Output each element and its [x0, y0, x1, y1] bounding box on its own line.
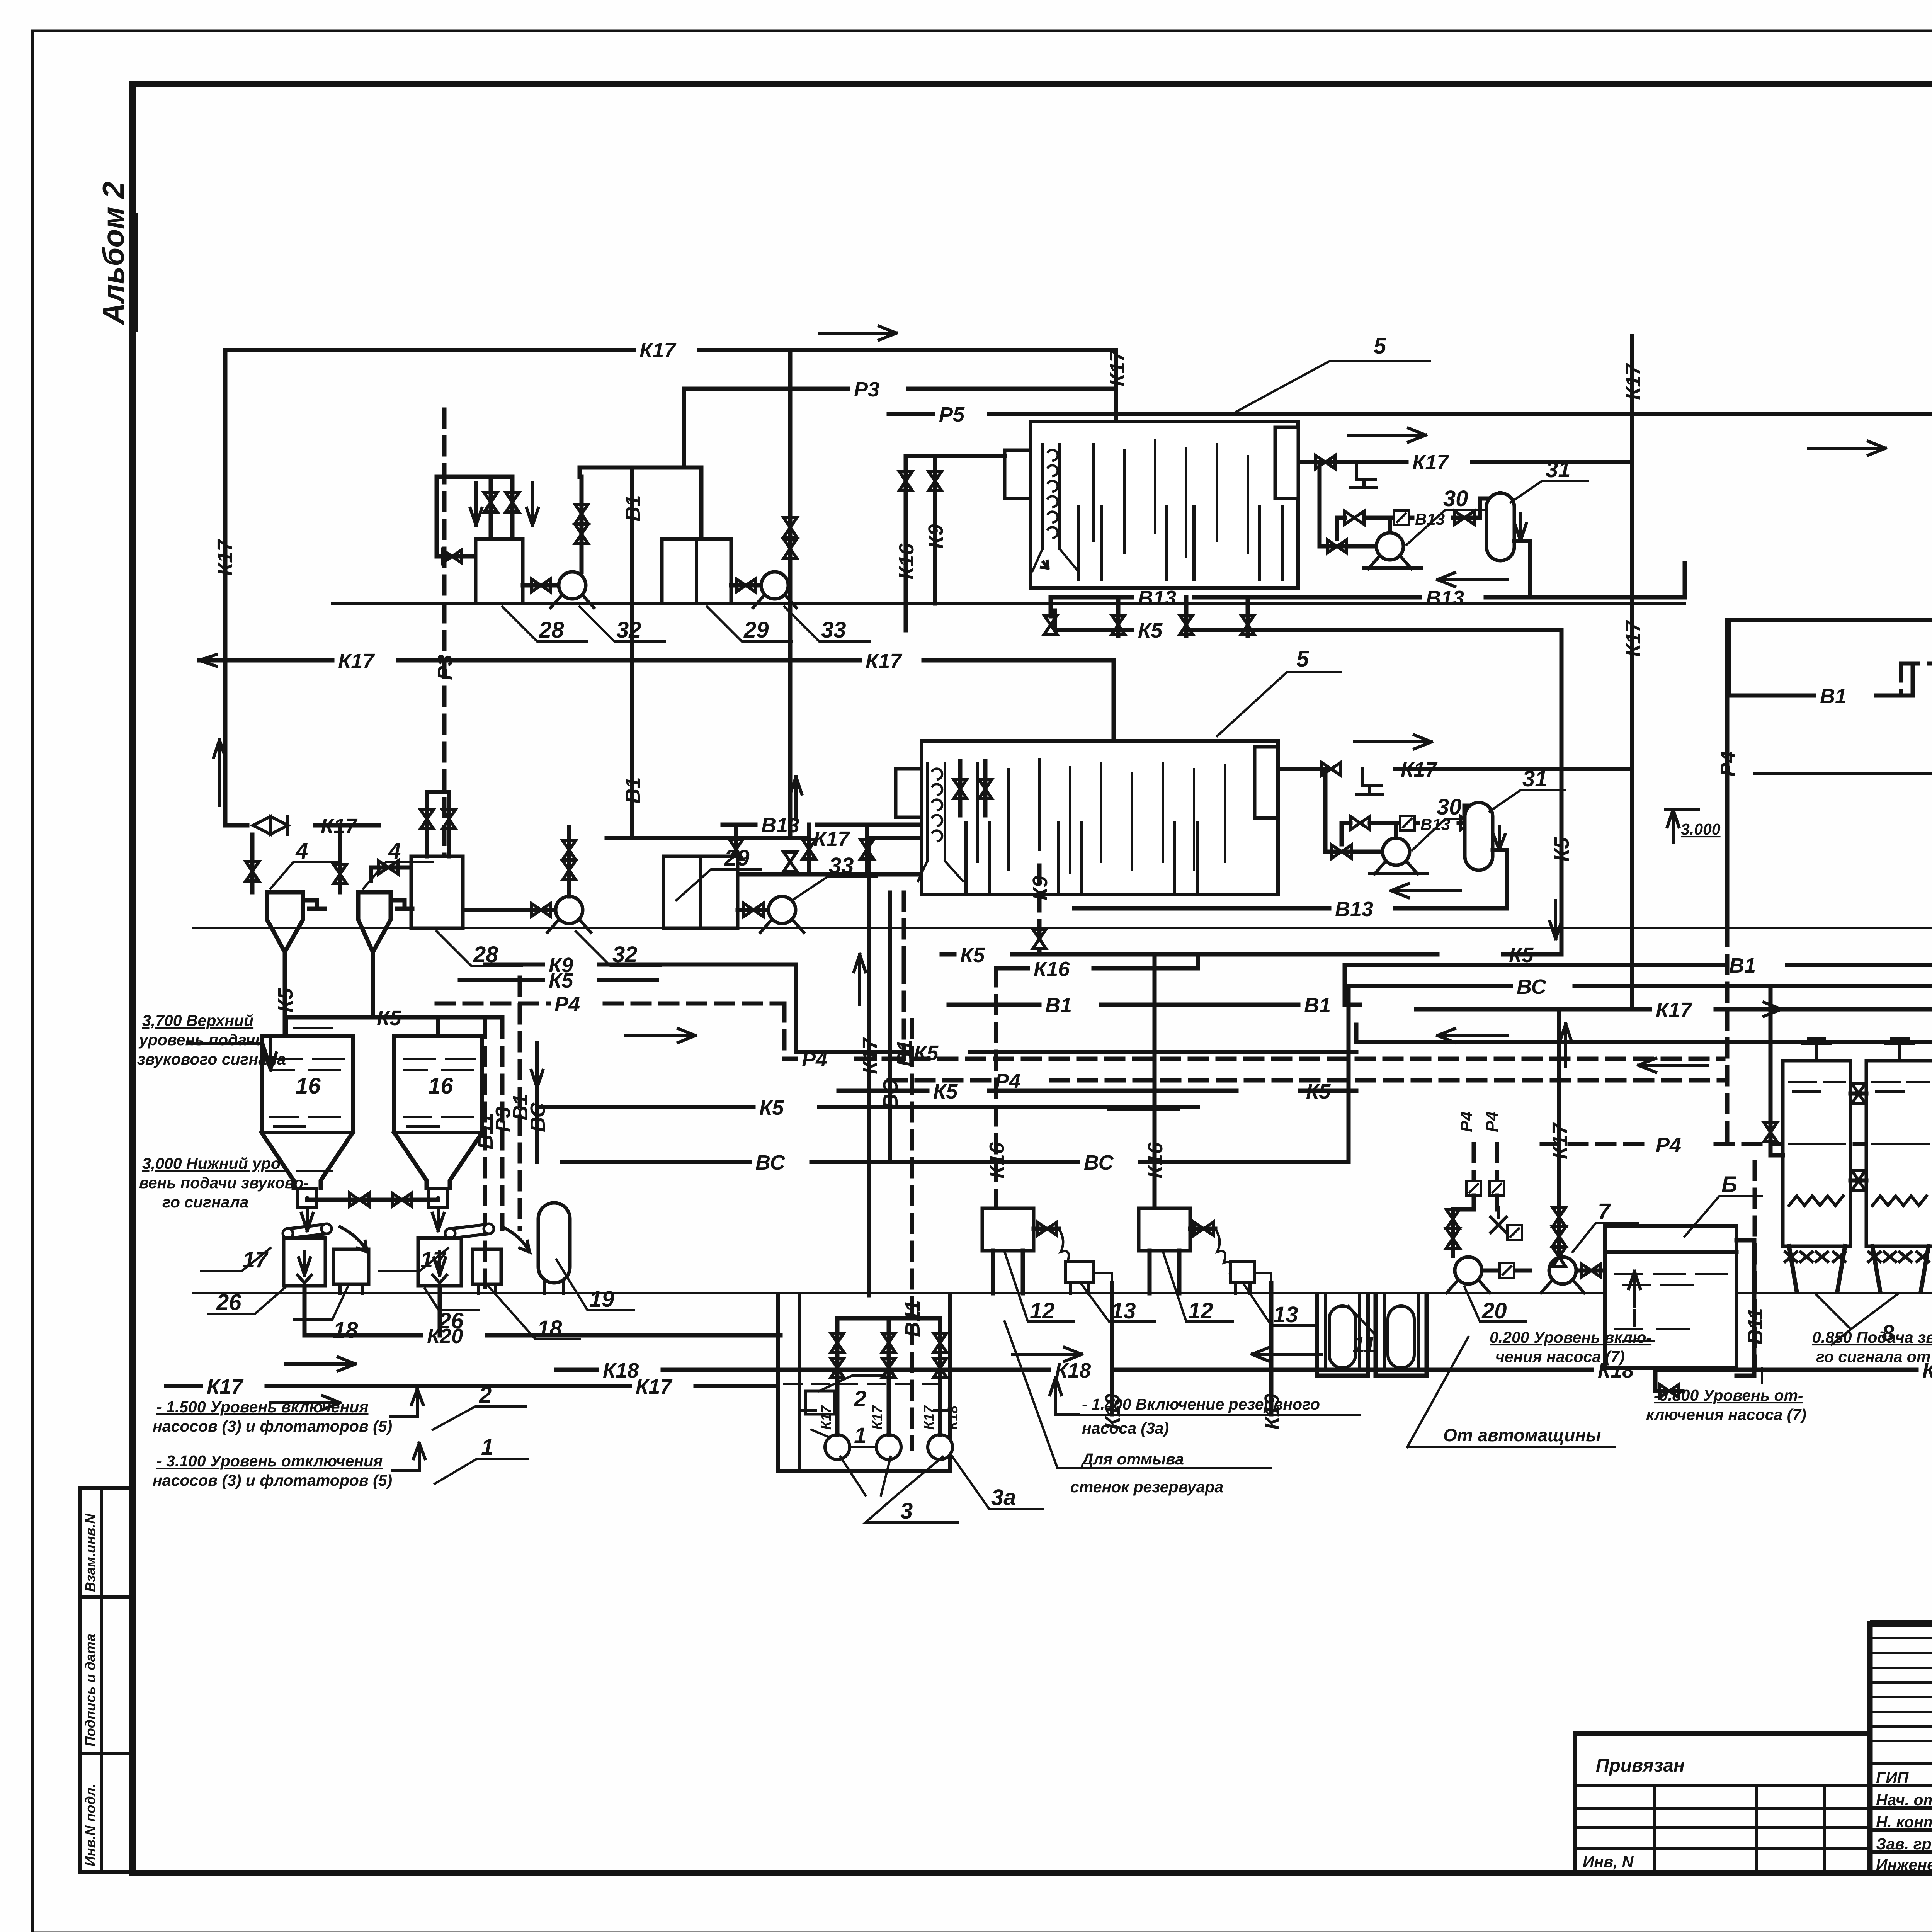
vessel 31-2 [1465, 766, 1565, 908]
settling tank 6 [1605, 1172, 1762, 1398]
svg-text:В13: В13 [761, 814, 799, 837]
ground floor line row2 [193, 927, 1932, 929]
note washing [1057, 1450, 1271, 1496]
riser K17 into flotator 1 inlet [1051, 349, 1129, 449]
svg-text:К17: К17 [869, 1405, 885, 1430]
note upper level silo [137, 1012, 332, 1068]
svg-text:ГИП: ГИП [1876, 1769, 1909, 1787]
svg-text:Р4: Р4 [1483, 1111, 1502, 1132]
pipe K16 row2 [996, 954, 1198, 981]
pipe K16 riser 1 [985, 968, 1009, 1208]
svg-text:К17: К17 [1548, 1122, 1571, 1159]
tank 29-1 [662, 539, 792, 643]
pipe B1 long right [1345, 954, 1932, 977]
pit vessels 11 [1317, 1295, 1427, 1376]
svg-text:уровень подачи: уровень подачи [138, 1031, 265, 1049]
elevation 3.000 right of flotators [1665, 810, 1721, 842]
svg-text:К17: К17 [1622, 363, 1645, 400]
riser K5 mid [1550, 630, 1573, 954]
svg-text:Альбом 2: Альбом 2 [96, 182, 130, 325]
svg-text:К17: К17 [866, 650, 903, 673]
riser K19 dosing 2 [1260, 1283, 1284, 1430]
pipe K5 band b [537, 1096, 1198, 1119]
svg-text:ключения насоса (7): ключения насоса (7) [1646, 1406, 1806, 1423]
svg-text:го сигнала от уровня: го сигнала от уровня [1816, 1348, 1932, 1366]
svg-text:3,700 Верхний: 3,700 Верхний [142, 1012, 253, 1029]
vessel 19 [538, 1203, 634, 1312]
attachment table [1575, 1734, 1870, 1872]
svg-text:К17: К17 [636, 1375, 673, 1398]
pipe K17 cross run [1416, 998, 1932, 1043]
svg-text:16: 16 [296, 1073, 321, 1099]
svg-text:Б: Б [1721, 1172, 1737, 1197]
reservoir pumps 3 and 3a [818, 1318, 1043, 1524]
svg-text:19: 19 [589, 1287, 614, 1312]
svg-text:К5: К5 [914, 1041, 939, 1065]
svg-text:К5: К5 [1550, 837, 1573, 862]
svg-text:От автомащины: От автомащины [1443, 1425, 1601, 1445]
ground line filters [1754, 772, 1932, 775]
svg-text:ВС: ВС [526, 1102, 549, 1132]
svg-text:2: 2 [854, 1386, 866, 1412]
pipe K5 row1 [1044, 597, 1561, 642]
pipe B13 row1 [1051, 563, 1685, 610]
svg-text:16: 16 [428, 1073, 453, 1099]
riser B11 reservoir dashed [901, 1020, 924, 1449]
svg-text:В1: В1 [621, 495, 645, 522]
pipe K18 main [556, 1347, 1932, 1439]
svg-text:Инв, N: Инв, N [1583, 1853, 1634, 1871]
hydrocyclone 4 no2 [358, 838, 433, 1017]
svg-text:Р5: Р5 [939, 403, 965, 426]
note lower level silo [139, 1155, 332, 1211]
svg-text:Р3: Р3 [854, 378, 879, 401]
note from truck [1407, 1337, 1615, 1447]
bunker 26 no2 [418, 1238, 479, 1335]
svg-text:К17: К17 [1656, 998, 1693, 1022]
filter interconnect valves [1744, 986, 1932, 1370]
pipe K5 band a [838, 1080, 1356, 1103]
svg-text:Для отмыва: Для отмыва [1081, 1450, 1184, 1468]
svg-text:К5: К5 [1138, 619, 1163, 642]
svg-text:К16: К16 [985, 1142, 1009, 1179]
svg-text:12: 12 [1188, 1298, 1213, 1323]
svg-text:-0.800 Уровень от-: -0.800 Уровень от- [1654, 1386, 1803, 1404]
hydrocyclone feed K17 [225, 815, 379, 838]
svg-text:насосов (3) и флотаторов (5): насосов (3) и флотаторов (5) [153, 1417, 392, 1435]
svg-text:К5: К5 [1306, 1080, 1331, 1103]
pipe P4 dashed upper [784, 1048, 1723, 1071]
pipe K16 riser 2 [1144, 954, 1167, 1208]
svg-text:К17: К17 [818, 1405, 834, 1430]
svg-text:4: 4 [388, 838, 401, 864]
pump 20 with solenoid boxes [1446, 1111, 1530, 1323]
main riser K17 right of flotators [1622, 336, 1645, 1009]
pipe VS mid [562, 1151, 1349, 1174]
svg-text:7: 7 [1598, 1199, 1611, 1224]
svg-text:13: 13 [1273, 1302, 1298, 1327]
pipe P4 dashed right [1542, 1133, 1932, 1156]
svg-text:32: 32 [612, 942, 638, 967]
svg-text:ВС: ВС [879, 1079, 902, 1109]
svg-text:30: 30 [1443, 486, 1468, 511]
pipe B1 dashed top right [1901, 653, 1932, 696]
svg-text:4: 4 [295, 838, 308, 864]
flotator 5 row1 [1005, 333, 1430, 588]
svg-text:К5: К5 [759, 1096, 784, 1119]
svg-text:33: 33 [829, 853, 854, 878]
svg-text:К18: К18 [945, 1406, 961, 1430]
svg-text:Р4: Р4 [1716, 751, 1740, 777]
svg-text:го сигнала: го сигнала [162, 1193, 248, 1211]
note reserve pump [1050, 1378, 1360, 1437]
note pump7 start [1490, 1310, 1651, 1366]
svg-text:В1: В1 [621, 777, 645, 804]
svg-text:Привязан: Привязан [1596, 1755, 1685, 1776]
svg-text:ВС: ВС [1084, 1151, 1114, 1174]
pipe K20 [304, 1310, 781, 1348]
pump 33-2 [738, 853, 877, 932]
svg-text:31: 31 [1546, 457, 1571, 482]
flotator 5 row2 [896, 646, 1341, 895]
conveyor 17 no1 [201, 1224, 367, 1272]
svg-text:32: 32 [616, 617, 641, 643]
pipe P4 silo dashed [437, 993, 784, 1059]
pipe K17 row2 collector [607, 827, 1114, 1295]
risers K16 K9 row1 [895, 456, 1005, 630]
pipe B13 row2 left [723, 814, 966, 874]
svg-text:18: 18 [537, 1316, 562, 1341]
tank 28-2 [371, 792, 522, 967]
pipe B1 mid left [949, 965, 1360, 1017]
svg-text:К5: К5 [549, 969, 573, 992]
bunker 26 no1 [209, 1238, 325, 1335]
svg-text:В13: В13 [1426, 587, 1464, 610]
note pump stop level [153, 1435, 527, 1489]
svg-text:20: 20 [1481, 1298, 1507, 1323]
svg-text:В1: В1 [1045, 994, 1072, 1017]
svg-text:17: 17 [243, 1247, 269, 1272]
svg-text:В13: В13 [1335, 898, 1373, 921]
feed pipes above tank 28-1 [437, 477, 538, 556]
svg-text:В13: В13 [1415, 510, 1445, 528]
svg-text:Р4: Р4 [1457, 1111, 1476, 1132]
svg-text:Инв.N подл.: Инв.N подл. [82, 1784, 98, 1866]
pump 33-1 [731, 572, 869, 643]
pipe K5 to silo [286, 969, 657, 1030]
pipe B13 row2 return [1074, 884, 1507, 921]
svg-text:стенок резервуара: стенок резервуара [1070, 1478, 1223, 1496]
svg-text:- 1.500 Уровень включения: - 1.500 Уровень включения [156, 1398, 369, 1416]
svg-text:вень подачи звуково-: вень подачи звуково- [139, 1174, 309, 1192]
svg-text:3а: 3а [991, 1485, 1016, 1510]
valve VS into tank 28-1 [437, 550, 476, 563]
svg-text:29: 29 [724, 845, 750, 871]
svg-text:26: 26 [216, 1290, 241, 1315]
svg-text:К16: К16 [1144, 1142, 1167, 1179]
note pump start level [153, 1383, 526, 1435]
feed header with solenoid boxes [1729, 613, 1932, 682]
svg-text:К5: К5 [960, 944, 985, 967]
box 18 no1 [294, 1249, 369, 1343]
svg-text:К17: К17 [1106, 349, 1129, 386]
svg-text:33: 33 [821, 617, 846, 643]
aerofilter 8 no1 [1783, 1039, 1850, 1292]
ground line bottom [193, 1292, 1932, 1294]
conveyor 17 no2 [379, 1224, 529, 1272]
riser P4 right solid/dash [1716, 620, 1740, 1144]
svg-text:насосов (3) и флотаторов (5): насосов (3) и флотаторов (5) [153, 1471, 392, 1489]
svg-text:1: 1 [854, 1423, 866, 1448]
svg-text:К17: К17 [1401, 758, 1438, 781]
dashed risers B11 P3 B1 VS left [434, 410, 549, 1287]
pump 32-2 [463, 827, 661, 967]
svg-text:5: 5 [1296, 646, 1309, 672]
silo drain cross valves [307, 1193, 438, 1206]
svg-text:0.200 Уровень вклю-: 0.200 Уровень вклю- [1490, 1328, 1651, 1346]
svg-text:Р3: Р3 [434, 655, 457, 680]
svg-text:1: 1 [481, 1435, 493, 1460]
svg-text:0.850 Подача звуково-: 0.850 Подача звуково- [1812, 1328, 1932, 1346]
svg-text:К16: К16 [895, 543, 918, 580]
svg-text:К5: К5 [933, 1080, 958, 1103]
svg-text:ВС: ВС [755, 1151, 786, 1174]
svg-text:3: 3 [900, 1498, 913, 1524]
svg-text:Р4: Р4 [554, 993, 580, 1016]
pipe K5 row2 [942, 944, 1561, 967]
svg-text:31: 31 [1522, 766, 1548, 791]
pump 7 [1541, 1199, 1638, 1293]
tank 29-2 [663, 845, 761, 928]
mezzanine floor line row1 [332, 602, 1685, 605]
svg-text:Подпись и дата: Подпись и дата [82, 1634, 98, 1747]
svg-text:12: 12 [1030, 1298, 1055, 1323]
svg-text:В11: В11 [1744, 1308, 1767, 1345]
pump 30-1 circuit [1320, 462, 1500, 569]
svg-text:28: 28 [539, 617, 564, 643]
svg-text:- 1.400 Включение резервного: - 1.400 Включение резервного [1082, 1395, 1320, 1413]
note pump7 stop [1646, 1368, 1806, 1423]
svg-text:К17: К17 [813, 827, 850, 850]
doser 13 no1 [1065, 1262, 1155, 1323]
svg-text:ВС: ВС [1517, 975, 1547, 998]
misc arrows top flows [1808, 441, 1886, 455]
riser B1 row1 [575, 468, 701, 838]
pipe K17 second header [199, 650, 1114, 838]
svg-text:К17: К17 [859, 1037, 882, 1074]
svg-text:чения насоса (7): чения насоса (7) [1495, 1348, 1625, 1366]
svg-text:28: 28 [473, 942, 498, 967]
pipe B1 solid left of filters [1729, 620, 1913, 708]
svg-text:В1: В1 [1304, 994, 1331, 1017]
dosing unit 12 no2 [1139, 1208, 1271, 1323]
pipe K17 to reservoir [166, 1357, 778, 1410]
svg-text:2: 2 [479, 1383, 492, 1408]
svg-text:К16: К16 [1034, 957, 1070, 981]
silo tank 16 no2 [373, 1017, 482, 1231]
vessel 31-1 [1486, 457, 1588, 597]
svg-text:Р4: Р4 [1656, 1133, 1681, 1156]
pipe VS long right [1349, 964, 1932, 1162]
svg-text:К5: К5 [274, 988, 297, 1012]
riser VS B1 near K17 [879, 893, 916, 1162]
svg-text:18: 18 [333, 1318, 358, 1343]
reservoir 1 [778, 1295, 950, 1471]
riser K19 dosing 1 [1101, 1283, 1124, 1430]
box 18 no2 [473, 1249, 580, 1341]
riser to K17-2 with arrow [784, 350, 802, 871]
svg-text:- 3.100 Уровень отключения: - 3.100 Уровень отключения [156, 1452, 383, 1470]
svg-text:К17: К17 [338, 650, 375, 673]
riser K17 to pump7 [1548, 1009, 1571, 1252]
pipe P3 row1 [684, 378, 1116, 468]
riser K17 left [213, 350, 236, 825]
svg-text:К17: К17 [1622, 620, 1645, 657]
pipe P5 long [889, 403, 1932, 940]
svg-text:К18: К18 [603, 1359, 639, 1382]
pipe K5 mid long [1356, 1025, 1932, 1072]
svg-text:3,000 Нижний уро-: 3,000 Нижний уро- [142, 1155, 286, 1172]
svg-text:11: 11 [1352, 1332, 1376, 1357]
svg-text:К17: К17 [639, 339, 677, 362]
svg-text:Зав. гр.: Зав. гр. [1876, 1835, 1932, 1853]
doser 13 no2 [1231, 1262, 1318, 1327]
svg-text:Нач. отд.: Нач. отд. [1876, 1791, 1932, 1809]
svg-text:13: 13 [1111, 1298, 1136, 1323]
left stamp table [80, 1488, 132, 1872]
svg-text:К18: К18 [1055, 1359, 1091, 1382]
leader to washing note [1005, 1321, 1057, 1466]
svg-text:Н. контр.: Н. контр. [1876, 1813, 1932, 1831]
hydrocyclone 4 no1 [246, 825, 347, 1036]
svg-text:звукового сигнала: звукового сигнала [137, 1050, 286, 1068]
svg-text:насоса (3а): насоса (3а) [1082, 1419, 1169, 1437]
svg-text:3.000: 3.000 [1681, 820, 1721, 838]
pump 30-2 circuit [1278, 735, 1632, 874]
pump 32-1 [523, 572, 665, 643]
svg-text:29: 29 [743, 617, 769, 643]
svg-text:5: 5 [1374, 333, 1386, 359]
svg-text:26: 26 [438, 1308, 464, 1333]
aerofilter 8 no2 [1816, 1039, 1932, 1346]
svg-text:К9: К9 [1029, 876, 1052, 900]
svg-text:Инженер: Инженер [1876, 1856, 1932, 1874]
tank 28-1 [476, 539, 587, 643]
risers K16 K9 row2 [954, 761, 1052, 954]
main title block [1870, 1623, 1932, 1874]
svg-text:К17: К17 [213, 539, 236, 576]
pipe P4 dashed lower [889, 1070, 1723, 1093]
pipe K9 to silo [485, 954, 1356, 1065]
dosing unit 12 no1 [982, 1208, 1112, 1323]
silo tank 16 no1 [189, 1017, 353, 1231]
pipe K17 top header [225, 326, 1116, 362]
svg-text:Взам.инв.N: Взам.инв.N [82, 1513, 98, 1592]
pipe K17 row1 outlet [1298, 428, 1632, 488]
svg-text:К9: К9 [924, 524, 947, 549]
svg-text:К17: К17 [921, 1405, 937, 1430]
svg-text:В1: В1 [1729, 954, 1756, 977]
svg-text:К17: К17 [207, 1375, 244, 1398]
svg-text:К17: К17 [1412, 451, 1449, 474]
svg-text:В1: В1 [1820, 685, 1847, 708]
note sound signal 0.850 [1812, 1310, 1932, 1366]
svg-text:30: 30 [1437, 794, 1462, 820]
